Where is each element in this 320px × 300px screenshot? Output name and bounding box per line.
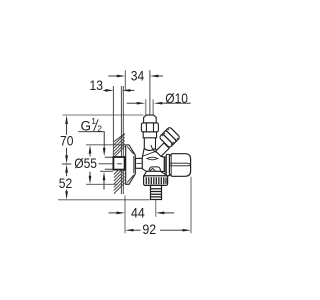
wall hatching lower <box>114 164 125 194</box>
escutcheon chamfer inner lines <box>127 147 133 183</box>
spout silhouette edge <box>142 151 157 157</box>
supply pipe stub behind wall <box>105 157 114 169</box>
dim Ø55 top extension <box>86 144 128 146</box>
knurled knob <box>159 127 180 148</box>
dim 52 upper arrow <box>65 164 68 173</box>
handle body <box>170 154 191 177</box>
wall fitting socket <box>113 157 124 170</box>
pipe Ø10 walls <box>146 99 154 115</box>
bottom level extension line <box>58 199 150 201</box>
wire wall back line <box>112 86 114 158</box>
dim 34 left ext line <box>124 70 126 89</box>
valve body <box>142 149 164 172</box>
svg-text:1: 1 <box>91 116 96 126</box>
cone peak lines <box>150 168 156 171</box>
dim 34 left arrow <box>108 75 117 77</box>
wall fitting center tick <box>117 163 122 165</box>
escutcheon front inner line <box>133 156 135 174</box>
socket lower arrow <box>103 172 106 181</box>
svg-text:52: 52 <box>59 175 73 191</box>
dim 13 right arrow <box>130 89 135 91</box>
svg-text:92: 92 <box>142 221 156 237</box>
diagonal stem to knob <box>156 143 170 156</box>
svg-text:44: 44 <box>131 205 145 221</box>
wire wall front line inner <box>122 86 124 194</box>
compression ferrule <box>144 115 157 123</box>
dim 70 top extension line <box>63 114 144 116</box>
svg-text:70: 70 <box>60 132 74 148</box>
G 1/2 leader underline and arrow <box>78 132 104 149</box>
svg-text:G: G <box>81 118 92 133</box>
dim Ø55 bottom extension <box>86 183 118 185</box>
handle flange <box>166 154 169 175</box>
valve neck <box>144 138 155 149</box>
body boss lens <box>147 157 158 160</box>
dim 92 line left <box>133 229 141 231</box>
handle left face line <box>170 154 172 176</box>
supply axis line <box>99 163 113 165</box>
pipe centerline <box>149 70 151 117</box>
dim Ø55 line upper arrow <box>89 145 92 154</box>
svg-text:13: 13 <box>90 77 104 93</box>
inlet stub <box>136 158 143 168</box>
socket bottom reference line <box>100 170 113 172</box>
svg-text:34: 34 <box>131 68 145 84</box>
dim 70 line lower <box>66 148 68 156</box>
dim 92 left extension <box>124 196 126 234</box>
union collar <box>143 132 156 138</box>
dim Ø10 right arrow <box>162 102 191 104</box>
axis tick <box>62 163 71 165</box>
barb centerline <box>155 200 157 217</box>
svg-text:Ø55: Ø55 <box>74 155 97 171</box>
inlet stub mid line <box>137 162 142 164</box>
barb ridges <box>151 189 162 197</box>
wall hatching upper <box>114 134 125 158</box>
knurled ring <box>144 176 168 186</box>
dim 44 right arrow <box>164 212 175 214</box>
knurl bars <box>146 177 166 184</box>
outlet cone <box>144 171 168 176</box>
nut face lines <box>146 123 153 132</box>
compression nut <box>141 123 158 132</box>
dim 92 line right <box>160 229 183 231</box>
handle mid lines <box>170 163 191 166</box>
body top wavy line <box>151 145 163 157</box>
dim 34 right arrow <box>158 75 163 77</box>
dim 52 lower arrow <box>66 190 68 193</box>
escutcheon <box>126 145 136 184</box>
dim 70 line upper <box>66 123 68 135</box>
hose barb <box>151 185 162 199</box>
dim 44 left arrow <box>109 212 118 214</box>
dim 92 right extension <box>190 177 192 234</box>
wire wall front line outer <box>120 86 122 194</box>
dim 13 left arrow <box>103 89 106 91</box>
outlet boss shoulder <box>149 167 161 172</box>
dim Ø55 line lower arrow <box>89 172 91 177</box>
dim Ø10 left arrow <box>127 102 138 104</box>
hex adapter <box>164 156 166 174</box>
